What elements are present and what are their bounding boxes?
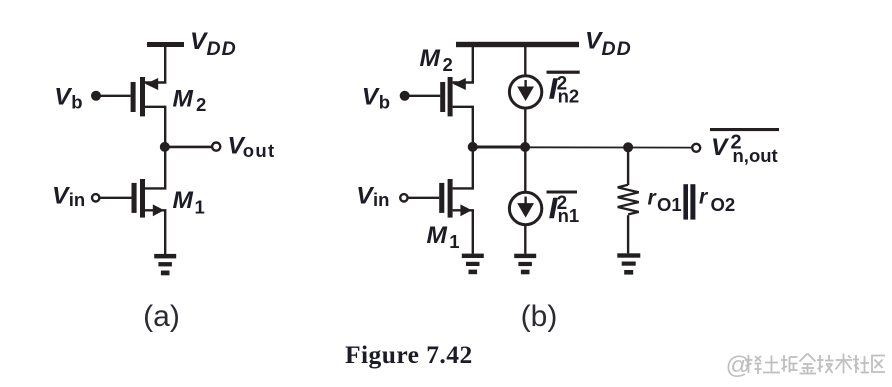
wire: In1 to ground (b) bbox=[524, 225, 526, 254]
label Vout (a) bbox=[228, 132, 276, 160]
node Vin open terminal (a) bbox=[92, 194, 99, 201]
ground (a) bbox=[154, 254, 176, 275]
svg-text:M: M bbox=[173, 86, 194, 113]
ground M1 (b) bbox=[462, 254, 484, 275]
node dot: M2 drain on rail (b) bbox=[468, 142, 478, 152]
node output open terminal (b) bbox=[692, 144, 700, 152]
watermark bbox=[726, 352, 886, 380]
wire: resistor to ground (b) bbox=[627, 215, 629, 253]
node Vb terminal dot (b) bbox=[400, 91, 410, 101]
svg-text:n2: n2 bbox=[558, 86, 580, 107]
wire: VDD bar to M2 source lead (a) bbox=[145, 47, 165, 83]
wire: rail segment M2 drain to current source node (b) bbox=[473, 146, 525, 149]
wire: Vin to M1 gate (a) bbox=[100, 197, 132, 199]
transistor M2 (PMOS) (a) bbox=[131, 77, 159, 116]
node Vb terminal dot (a) bbox=[91, 91, 101, 101]
svg-text:in: in bbox=[373, 189, 389, 210]
transistor M1 (NMOS) (b) bbox=[439, 179, 472, 218]
wire: Vb to M2 gate (b) bbox=[405, 95, 441, 97]
svg-text:O1: O1 bbox=[657, 194, 682, 215]
svg-text:n,out: n,out bbox=[733, 145, 778, 166]
wire: M1 drain up to output rail (b) bbox=[453, 147, 473, 188]
node Vin open terminal (b) bbox=[400, 194, 407, 201]
svg-text:O2: O2 bbox=[711, 194, 736, 215]
label Vb (a) bbox=[54, 83, 82, 112]
wire: output node to Vout terminal (a) bbox=[165, 146, 213, 149]
wire: rail down to resistor (b) bbox=[627, 147, 629, 185]
resistor rO1||rO2 (b) bbox=[618, 185, 639, 215]
svg-text:out: out bbox=[243, 140, 276, 161]
transistor M1 (NMOS) (a) bbox=[132, 179, 165, 218]
label M2 (a) bbox=[173, 86, 207, 116]
node dot: current sources on rail (b) bbox=[520, 142, 530, 152]
node dot: resistor on rail (b) bbox=[623, 142, 633, 152]
svg-text:(b): (b) bbox=[521, 300, 558, 333]
VDD supply bar (b) bbox=[456, 42, 579, 47]
wire: VDD bar to M2 source lead (b) bbox=[453, 47, 473, 83]
svg-text:n1: n1 bbox=[558, 205, 580, 226]
label In2 squared with overline (b) bbox=[547, 71, 580, 107]
svg-text:DD: DD bbox=[602, 38, 632, 60]
label VDD (b) bbox=[585, 28, 632, 61]
svg-text:M: M bbox=[420, 45, 441, 72]
svg-text:Figure 7.42: Figure 7.42 bbox=[345, 340, 473, 369]
svg-text:V: V bbox=[711, 134, 730, 161]
svg-text:DD: DD bbox=[207, 38, 237, 60]
svg-text:(a): (a) bbox=[143, 300, 180, 333]
ground In1 (b) bbox=[514, 254, 536, 275]
wire: M1 source to ground (b) bbox=[453, 210, 473, 253]
transistor M2 (PMOS) (b) bbox=[440, 77, 466, 116]
label In1 squared with overline (b) bbox=[547, 191, 580, 227]
wire: M2 drain to output node to M1 drain (a) bbox=[145, 107, 165, 189]
label Vb (b) bbox=[362, 83, 390, 112]
svg-text:M: M bbox=[427, 222, 448, 249]
label M1 (b) bbox=[427, 222, 460, 252]
wire: Vin to M1 gate (b) bbox=[408, 197, 439, 199]
label rO1||rO2 (b) bbox=[648, 184, 736, 219]
wire: rail to In1 current source (b) bbox=[524, 147, 526, 192]
label VDD (a) bbox=[190, 28, 237, 60]
wire: M1 source to ground (a) bbox=[145, 210, 165, 254]
svg-text:2: 2 bbox=[196, 94, 206, 115]
svg-text:in: in bbox=[69, 189, 85, 210]
VDD supply bar (a) bbox=[147, 42, 184, 47]
wire: In2 to output rail (b) bbox=[524, 108, 526, 147]
svg-text:1: 1 bbox=[195, 197, 205, 218]
svg-text:b: b bbox=[379, 91, 390, 112]
current source In1 (b) bbox=[509, 192, 541, 224]
current source In2 (b) bbox=[509, 76, 541, 108]
node output dot (a) bbox=[160, 142, 170, 152]
label M2 (b) bbox=[420, 45, 453, 75]
wire: Vb to M2 gate (a) bbox=[96, 95, 131, 97]
svg-text:1: 1 bbox=[449, 231, 459, 252]
label M1 (a) bbox=[173, 187, 205, 218]
node Vout open terminal (a) bbox=[212, 143, 220, 151]
wire: VDD bar to In2 current source (b) bbox=[524, 47, 526, 76]
label Vin (a) bbox=[52, 182, 85, 210]
label Vin (b) bbox=[356, 182, 389, 210]
label Vn,out squared with overline (b) bbox=[710, 128, 779, 166]
svg-text:2: 2 bbox=[443, 54, 453, 75]
wire: rail segment to output terminal (b) bbox=[525, 146, 692, 148]
wire: M2 drain down to output rail (b) bbox=[453, 107, 473, 147]
ground resistor (b) bbox=[617, 253, 640, 274]
svg-text:b: b bbox=[71, 91, 82, 112]
svg-text:M: M bbox=[173, 187, 194, 214]
